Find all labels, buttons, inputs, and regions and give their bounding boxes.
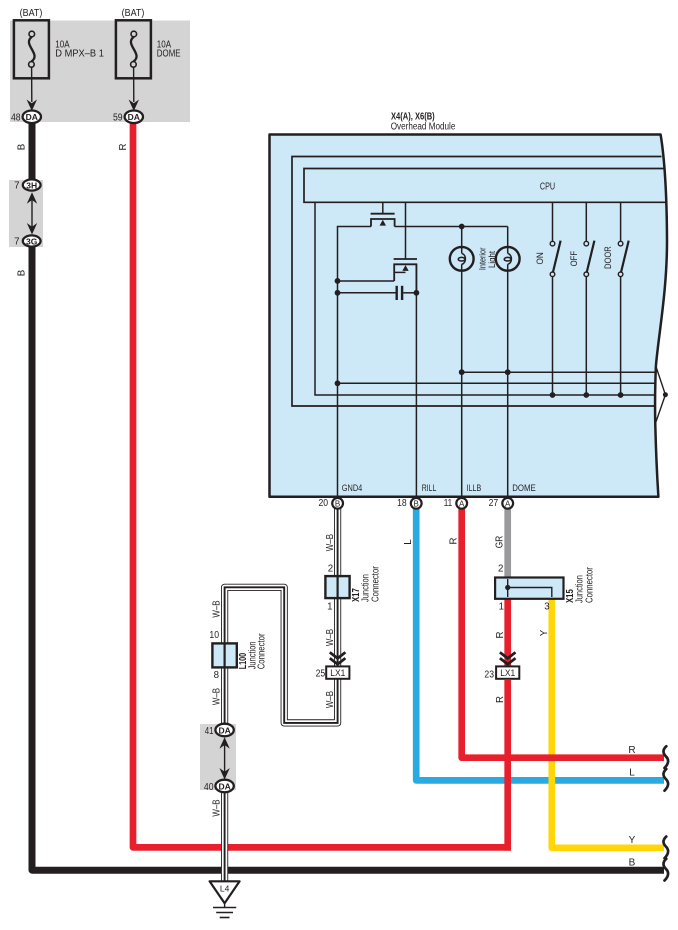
svg-text:W–B: W–B [212,799,223,816]
svg-text:3G: 3G [26,236,38,246]
svg-text:1: 1 [499,602,504,613]
svg-text:Y: Y [629,835,636,846]
svg-text:8: 8 [214,670,219,681]
fuse F2 output arrow [129,67,139,111]
svg-text:10: 10 [209,630,219,641]
svg-text:B: B [17,144,28,150]
wire GR DOME (gray) [504,506,511,578]
inner boundary box [292,157,662,407]
wire label W-B (left branch upper) [212,600,223,617]
module pin 20 B [319,498,344,509]
fuse F1 D MPX-B 1 [14,8,104,78]
wire GND bus [338,382,656,384]
svg-text:11: 11 [444,498,453,509]
continuation squiggle Y [663,837,668,859]
svg-text:W–B: W–B [212,600,223,617]
svg-text:20: 20 [319,498,329,509]
wire W-B GND4 to X17 to LX1 to L100 (white wire, S path) [225,506,338,730]
wire Q1 drain to lamps [395,226,508,228]
svg-text:CPU: CPU [540,181,555,192]
svg-text:40: 40 [204,782,214,793]
junction connector L100 [209,630,267,681]
fuse F2 DOME [116,8,181,78]
continuation squiggle R [663,746,668,768]
svg-text:DA: DA [218,725,230,735]
junction dots inside module [335,224,624,398]
junction connector X15 [495,563,595,612]
splice arrows into LX1-23 [500,652,516,664]
svg-text:LX1: LX1 [330,668,345,678]
svg-text:3H: 3H [26,180,37,190]
svg-text:2: 2 [328,563,333,574]
wire label R (below LX1-23) [495,696,506,703]
svg-text:L4: L4 [220,884,230,894]
svg-text:RILL: RILL [422,483,437,494]
wire B main (black) [29,122,36,181]
svg-text:(BAT): (BAT) [20,8,43,19]
wire label R (X15 to LX1-23) [495,632,506,639]
splice LX1 25 [316,666,350,679]
svg-text:ON: ON [535,252,546,264]
svg-text:GR: GR [495,536,506,549]
label Interior Light [478,247,498,270]
svg-text:18: 18 [397,498,407,509]
capacitor C1 [338,286,417,300]
transistor Q1 [371,214,395,227]
label Y (right) [629,835,636,846]
svg-text:R: R [449,538,460,545]
switch DOOR [618,202,628,395]
torn edge continuation chevron [656,366,668,423]
svg-text:59: 59 [113,112,123,123]
junction connector X17 [325,563,381,612]
svg-text:41: 41 [205,726,214,737]
module pin 18 B [397,498,422,509]
module pin 11 A [444,498,467,509]
wire label W-B (to ground) [212,799,223,816]
svg-text:L: L [403,539,414,545]
wire lamp bus [462,371,656,373]
wire W-B DA40 to ground [221,786,228,884]
svg-text:1: 1 [327,601,332,612]
wire R from LX1-23 (red) [504,680,511,851]
transistor Q2 gate wire [405,202,407,259]
wire R X15 pin1 to LX1-23 (red) [504,598,511,668]
svg-text:Overhead Module: Overhead Module [391,122,456,133]
svg-text:W–B: W–B [325,629,336,646]
svg-text:B: B [629,858,636,869]
connector 48 DA [11,111,41,124]
svg-text:DOME: DOME [157,49,181,60]
fuse block gray background [10,21,190,123]
pin labels inside module [342,483,536,494]
svg-text:W–B: W–B [325,534,336,551]
svg-text:R: R [628,745,635,756]
connector 40 DA [204,780,234,793]
connector mating arrows 3H/3G [27,192,37,234]
wire label W-B (GND4 upper) [325,534,336,551]
connector 7 3G [14,235,40,247]
svg-text:DOOR: DOOR [603,246,614,269]
svg-text:GND4: GND4 [342,483,363,494]
wire L RILL (blue) [416,506,664,780]
svg-text:DA: DA [218,781,230,791]
label B (right) [629,858,636,869]
svg-text:23: 23 [484,669,494,680]
wire label Y [539,629,550,636]
wire label GR [495,536,506,549]
connector 41 DA [205,724,234,737]
svg-text:3: 3 [544,602,549,613]
wire label R (ILLB) [449,538,460,545]
wire Y from X15 pin3 (yellow) [552,598,664,848]
svg-text:27: 27 [489,498,499,509]
svg-text:LX1: LX1 [500,668,515,678]
svg-text:R: R [495,632,506,639]
label OFF [569,251,580,267]
wire label W-B (left branch lower) [212,688,223,705]
continuation squiggle L [663,769,668,791]
wire RILL internal vertical [415,264,417,497]
svg-text:Y: Y [539,629,550,636]
wire GND4 internal vertical [338,227,372,498]
label R wire upper [118,144,129,151]
label DOOR [603,246,614,269]
svg-text:(BAT): (BAT) [122,8,145,19]
label L (right) [629,768,635,779]
splice arrows into LX1-25 [330,652,346,664]
ground L4 [210,881,240,917]
module pin 27 A [489,498,514,509]
label ON [535,252,546,264]
wire Q2 source [338,280,395,282]
wire label W-B (X17 to LX1) [325,629,336,646]
overhead module body [270,135,668,497]
wire R from DOME fuse (red) [133,122,511,847]
svg-text:A: A [505,499,511,508]
switch OFF [584,202,594,395]
CPU box [304,169,667,203]
connector DA41/DA40 gray background [200,724,236,790]
connector 59 DA [113,111,143,124]
svg-text:Connector: Connector [370,565,381,602]
svg-text:R: R [118,144,129,151]
label R (right) [628,745,635,756]
fuse F1 output arrow [27,67,37,111]
lamp interior light 1 [450,227,474,498]
svg-text:DA: DA [128,112,140,122]
wire R ILLB (red) [462,506,664,758]
continuation squiggle B [663,859,668,881]
connector 3H/3G gray background [9,180,43,247]
svg-text:R: R [495,696,506,703]
lamp interior light 2 [496,227,520,498]
svg-text:Connector: Connector [256,633,267,670]
svg-text:ILLB: ILLB [467,483,482,494]
svg-text:W–B: W–B [212,688,223,705]
svg-text:48: 48 [11,112,21,123]
wire label W-B (below LX1-25) [325,691,336,708]
svg-text:7: 7 [14,180,19,191]
svg-text:Connector: Connector [584,566,595,603]
svg-text:DA: DA [26,112,38,122]
svg-text:Light: Light [487,251,498,268]
svg-text:B: B [414,499,419,508]
svg-text:DOME: DOME [512,483,536,494]
svg-text:2: 2 [498,563,503,574]
svg-text:D MPX–B 1: D MPX–B 1 [55,49,104,60]
svg-text:L: L [629,768,635,779]
CPU label [540,181,555,192]
switch ON [550,202,560,395]
wire from CPU to switch bus (left internal vertical) [315,202,655,395]
transistor Q2 [394,259,417,293]
svg-text:B: B [335,499,340,508]
svg-text:W–B: W–B [325,691,336,708]
svg-text:OFF: OFF [569,251,580,267]
connector mating arrows DA41/DA40 [219,737,229,779]
svg-text:7: 7 [14,236,19,247]
transistor Q1 gate wire [382,202,384,213]
label B wire lower [17,270,28,276]
module title [391,112,456,133]
connector 7 3H [14,179,40,191]
wire label L [403,539,414,545]
svg-text:A: A [459,499,465,508]
splice LX1 23 [484,666,519,680]
svg-text:B: B [17,270,28,276]
label B wire upper [17,144,28,150]
svg-text:25: 25 [316,668,326,679]
